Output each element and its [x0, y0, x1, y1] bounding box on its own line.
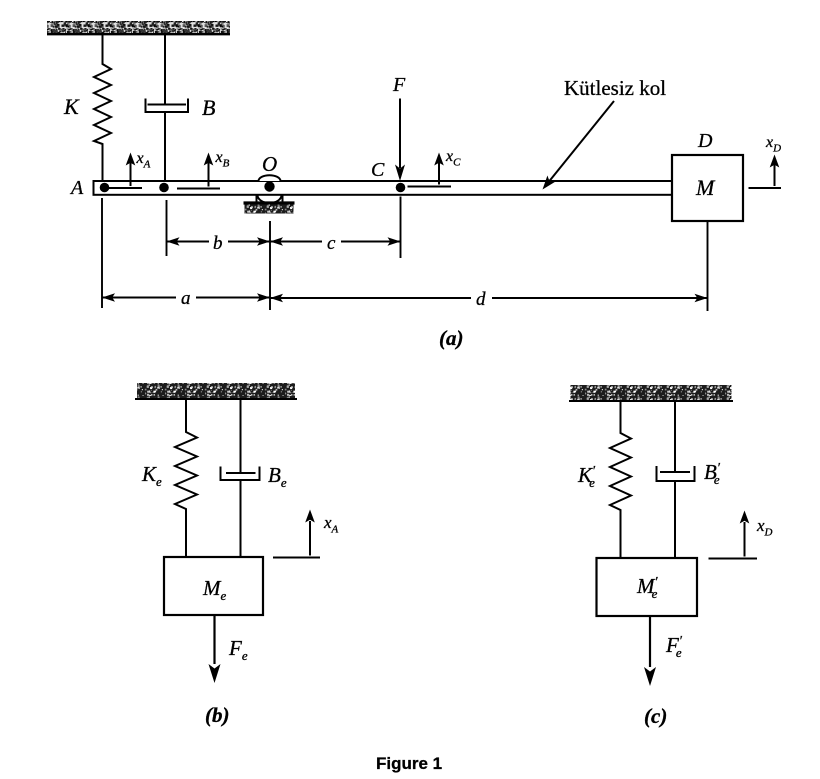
leader wire — [539, 101, 614, 193]
svg-text:B: B — [202, 95, 215, 120]
force Fe arrow — [209, 615, 221, 683]
node B — [159, 183, 169, 193]
mass Me box — [164, 557, 263, 615]
svg-text:(a): (a) — [439, 326, 464, 350]
dimension c — [270, 241, 401, 243]
svg-text:F: F — [392, 74, 406, 96]
svg-text:(c): (c) — [644, 704, 667, 728]
marker x_A (b) — [273, 510, 339, 558]
force Fe' arrow — [644, 616, 656, 686]
marker x_B — [177, 149, 230, 189]
svg-text:Kütlesiz kol: Kütlesiz kol — [564, 76, 666, 100]
lever bar (massless arm) — [94, 181, 673, 195]
node A — [100, 183, 110, 193]
svg-text:K: K — [63, 94, 80, 119]
svg-text:O: O — [262, 152, 277, 176]
svg-text:D: D — [697, 130, 713, 152]
marker x_D (c) — [709, 511, 773, 559]
extension line below A — [101, 198, 103, 308]
force F arrow — [395, 99, 405, 182]
mass M box — [672, 155, 743, 221]
spring Ke — [175, 399, 197, 557]
svg-text:Figure 1: Figure 1 — [376, 754, 442, 773]
svg-text:d: d — [476, 289, 486, 310]
ceiling (b) — [135, 383, 297, 399]
svg-text:A: A — [69, 177, 84, 199]
svg-text:M′e: M′e — [636, 574, 659, 601]
damper Be' — [657, 401, 695, 558]
svg-text:B′e: B′e — [704, 460, 721, 487]
svg-text:c: c — [327, 233, 336, 254]
damper B — [146, 35, 189, 183]
extension line below O — [269, 221, 271, 310]
dimension b — [167, 241, 271, 243]
svg-text:a: a — [181, 288, 191, 309]
extension line below B — [166, 200, 168, 256]
svg-text:(b): (b) — [205, 703, 230, 727]
svg-text:C: C — [371, 159, 385, 181]
svg-text:K′e: K′e — [577, 463, 596, 490]
mass Me' box — [597, 558, 698, 616]
spring K — [94, 35, 111, 183]
svg-text:b: b — [213, 233, 223, 254]
ceiling (c) — [569, 385, 733, 401]
dimension a — [102, 297, 270, 299]
marker x_D — [749, 134, 782, 188]
node C — [396, 183, 406, 193]
extension line below C — [400, 197, 402, 259]
damper Be — [221, 399, 260, 557]
dimension d — [270, 297, 708, 299]
svg-text:F′e: F′e — [665, 633, 683, 660]
svg-text:M: M — [695, 175, 716, 200]
marker x_A — [109, 150, 151, 188]
extension line below D — [707, 221, 709, 311]
spring Ke' — [610, 401, 631, 558]
ceiling (a) — [47, 21, 230, 34]
pivot O support — [244, 175, 295, 213]
marker x_C — [408, 148, 462, 187]
